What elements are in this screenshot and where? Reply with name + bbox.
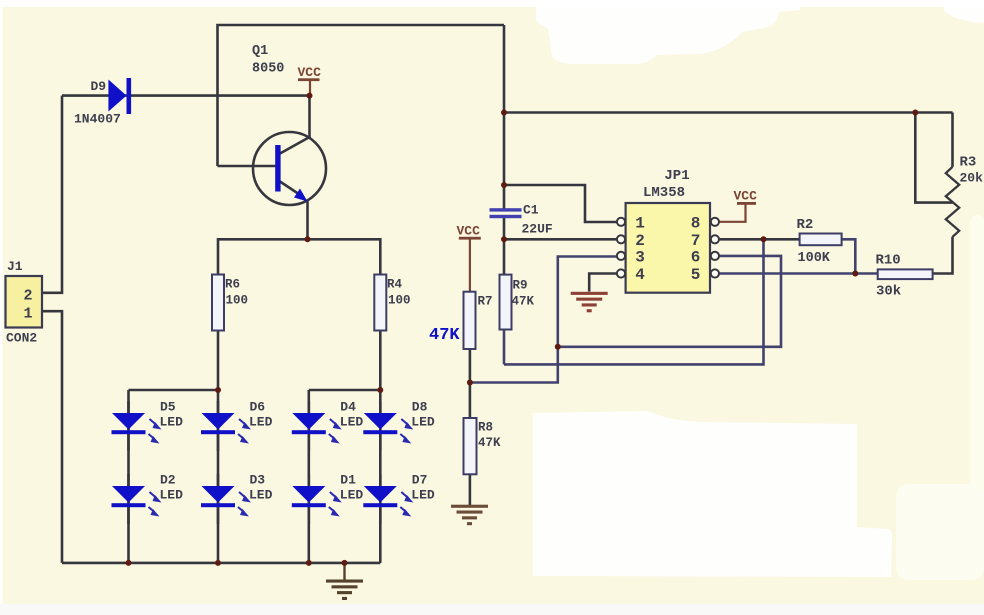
svg-text:LED: LED xyxy=(249,488,273,503)
svg-text:1: 1 xyxy=(635,214,645,232)
svg-text:LED: LED xyxy=(160,488,184,503)
svg-text:D3: D3 xyxy=(250,473,266,488)
svg-text:LED: LED xyxy=(411,415,435,430)
svg-text:LED: LED xyxy=(249,415,273,430)
svg-text:R9: R9 xyxy=(513,279,528,293)
svg-text:LED: LED xyxy=(340,488,364,503)
svg-text:R10: R10 xyxy=(876,253,901,269)
svg-text:Q1: Q1 xyxy=(252,44,268,59)
svg-text:VCC: VCC xyxy=(298,65,322,80)
svg-text:2: 2 xyxy=(23,288,32,305)
svg-text:5: 5 xyxy=(691,266,701,284)
svg-text:2: 2 xyxy=(635,232,645,250)
svg-text:R2: R2 xyxy=(797,217,814,233)
svg-text:100: 100 xyxy=(226,294,249,308)
svg-text:22UF: 22UF xyxy=(522,222,553,237)
svg-text:30k: 30k xyxy=(876,284,901,300)
svg-text:4: 4 xyxy=(635,266,645,284)
svg-text:CON2: CON2 xyxy=(6,331,37,346)
svg-text:VCC: VCC xyxy=(457,224,481,239)
svg-text:47K: 47K xyxy=(429,326,460,345)
svg-text:R8: R8 xyxy=(478,421,493,435)
svg-text:8: 8 xyxy=(691,214,701,232)
svg-text:D8: D8 xyxy=(412,400,428,415)
svg-text:D7: D7 xyxy=(412,473,428,488)
svg-text:100K: 100K xyxy=(798,251,831,266)
svg-text:J1: J1 xyxy=(7,259,23,274)
svg-text:1N4007: 1N4007 xyxy=(74,112,121,127)
svg-text:100: 100 xyxy=(388,294,411,308)
svg-text:LED: LED xyxy=(411,488,435,503)
svg-text:3: 3 xyxy=(635,248,645,266)
svg-text:47K: 47K xyxy=(478,436,501,450)
svg-text:LED: LED xyxy=(160,415,184,430)
svg-text:D6: D6 xyxy=(250,400,266,415)
svg-text:7: 7 xyxy=(691,232,701,250)
svg-text:D5: D5 xyxy=(160,400,176,415)
svg-text:D9: D9 xyxy=(91,79,107,94)
svg-text:LED: LED xyxy=(340,415,364,430)
svg-text:6: 6 xyxy=(691,248,701,266)
svg-text:VCC: VCC xyxy=(734,189,758,204)
svg-text:D2: D2 xyxy=(160,473,176,488)
svg-text:47K: 47K xyxy=(512,295,535,309)
svg-text:8050: 8050 xyxy=(252,62,284,77)
svg-text:1: 1 xyxy=(23,306,32,323)
svg-text:R6: R6 xyxy=(225,278,240,292)
svg-text:R3: R3 xyxy=(960,155,977,171)
svg-text:20k: 20k xyxy=(960,171,984,186)
svg-text:JP1: JP1 xyxy=(664,168,689,184)
svg-text:R4: R4 xyxy=(387,278,403,292)
svg-text:D1: D1 xyxy=(340,473,356,488)
svg-text:R7: R7 xyxy=(478,295,493,309)
svg-text:D4: D4 xyxy=(340,400,356,415)
svg-text:C1: C1 xyxy=(523,203,539,218)
svg-text:LM358: LM358 xyxy=(643,185,685,201)
